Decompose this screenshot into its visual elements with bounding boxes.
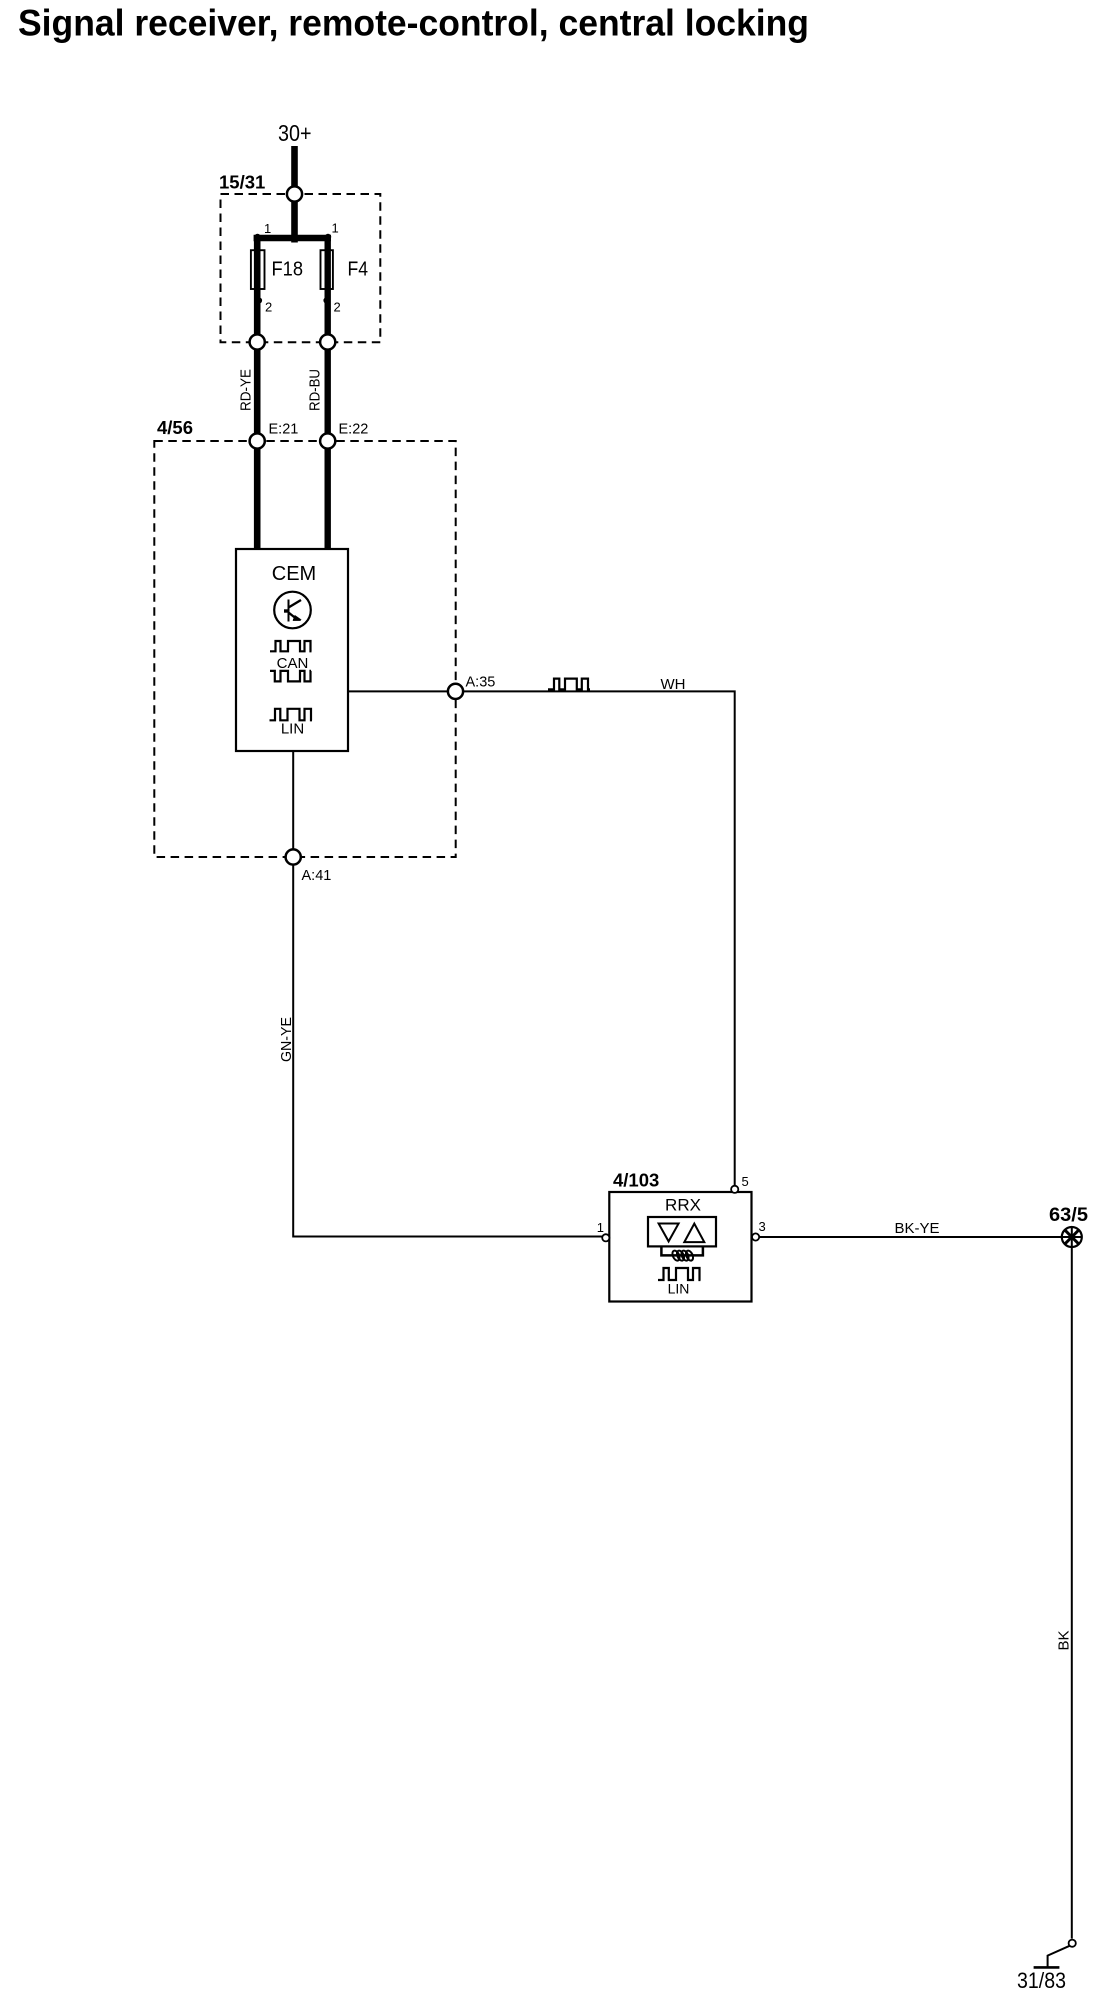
svg-text:BK: BK <box>1056 1630 1073 1650</box>
RRX box <box>609 1192 751 1302</box>
svg-text:RRX: RRX <box>665 1196 701 1215</box>
wire CEM A:35 output <box>348 691 735 1186</box>
LIN icon wave (RRX) <box>658 1268 701 1280</box>
pin 1 connector RRX <box>602 1234 609 1241</box>
connector circle fusebox output right <box>320 334 335 349</box>
CEM 4/56 dashed box <box>154 441 455 857</box>
svg-text:A:35: A:35 <box>466 675 496 691</box>
wire BK-YE <box>759 1236 1072 1238</box>
receiver icon box <box>648 1217 716 1246</box>
svg-text:E:22: E:22 <box>339 422 369 438</box>
svg-text:5: 5 <box>742 1174 749 1189</box>
pin 3 connector RRX <box>752 1233 759 1240</box>
svg-text:31/83: 31/83 <box>1017 1968 1066 1993</box>
CAN bus icon upper wave <box>270 641 312 651</box>
svg-text:RD-BU: RD-BU <box>307 369 324 411</box>
antenna coil <box>661 1246 703 1261</box>
wire branch bar to fuses <box>254 235 331 241</box>
LIN icon wave (CEM) <box>270 709 313 721</box>
connector circle fusebox input <box>287 186 302 201</box>
svg-text:30+: 30+ <box>278 120 312 146</box>
ground 31/83 symbol <box>1034 1940 1076 1968</box>
wire fuse F18 branch (thick) <box>254 235 261 549</box>
wire BK vertical <box>1071 1237 1073 1939</box>
pin 2 dot F18 <box>256 297 262 303</box>
svg-text:1: 1 <box>597 1220 604 1235</box>
pin 5 connector RRX <box>731 1186 738 1193</box>
svg-text:4/103: 4/103 <box>613 1170 659 1191</box>
signal wave icon on WH wire <box>548 679 590 690</box>
svg-text:3: 3 <box>759 1219 766 1234</box>
fuse F4 <box>321 250 333 289</box>
CEM box <box>236 549 348 751</box>
pin 1 dot F18 <box>254 234 260 240</box>
connector A:35 <box>448 684 463 699</box>
svg-text:1: 1 <box>332 220 339 235</box>
wire fuse F4 branch (thick) <box>325 235 331 549</box>
svg-text:63/5: 63/5 <box>1049 1204 1088 1226</box>
svg-text:F18: F18 <box>272 259 304 281</box>
connector E:21 <box>250 433 265 448</box>
fuse F18 <box>251 250 265 289</box>
transistor icon U1 <box>274 592 311 629</box>
svg-text:LIN: LIN <box>281 721 304 738</box>
svg-text:A:41: A:41 <box>302 868 332 884</box>
svg-text:4/56: 4/56 <box>157 417 193 438</box>
connector circle fusebox output left <box>250 334 265 349</box>
svg-text:RD-YE: RD-YE <box>238 369 255 411</box>
connector 63/5 (spoked wheel) <box>1062 1227 1082 1247</box>
svg-text:CAN: CAN <box>277 655 309 672</box>
receiver icon triangle up <box>684 1224 704 1243</box>
svg-text:WH: WH <box>661 676 686 693</box>
fusebox 15/31 dashed box <box>221 194 381 342</box>
svg-text:2: 2 <box>334 300 341 315</box>
connector E:22 <box>320 433 335 448</box>
CAN bus icon lower wave (inverted) <box>270 671 311 682</box>
svg-text:Signal receiver, remote-contro: Signal receiver, remote-control, central… <box>18 3 809 44</box>
svg-text:15/31: 15/31 <box>219 172 265 193</box>
svg-text:CEM: CEM <box>272 563 316 585</box>
svg-text:E:21: E:21 <box>269 422 299 438</box>
svg-text:1: 1 <box>264 221 271 236</box>
connector A:41 <box>286 849 301 864</box>
svg-text:LIN: LIN <box>668 1281 690 1297</box>
wire CEM A:41 output <box>293 751 606 1237</box>
svg-text:GN-YE: GN-YE <box>278 1017 295 1062</box>
wire 30+ feed (thick) <box>291 146 298 243</box>
svg-text:F4: F4 <box>348 259 369 281</box>
pin 2 dot F4 <box>323 297 329 303</box>
svg-text:2: 2 <box>265 300 272 315</box>
svg-text:BK-YE: BK-YE <box>895 1220 940 1237</box>
pin 1 dot F4 <box>325 234 331 240</box>
receiver icon triangle down <box>659 1224 679 1242</box>
